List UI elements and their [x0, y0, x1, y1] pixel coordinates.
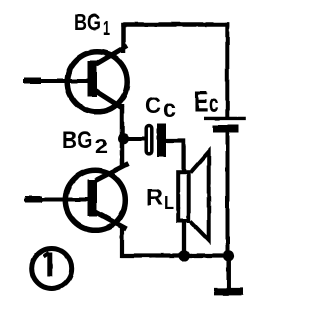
capacitor Cc left plate (hollow)	[146, 126, 152, 154]
transistor BG2 base bar	[88, 180, 98, 217]
svg-text:c: c	[209, 90, 219, 118]
wire ground stem	[226, 256, 231, 289]
wire BG2 emitter vertical to bottom	[122, 227, 229, 256]
wire mid vertical (BG1 emitter to BG2 collector)	[120, 104, 125, 167]
transistor BG2 emitter line	[96, 212, 127, 229]
transistor BG1 collector line	[96, 46, 128, 65]
svg-text:BG: BG	[74, 9, 101, 35]
node junction dot speaker/bottom wire	[178, 250, 189, 261]
transistor BG2 circle	[65, 170, 125, 230]
speaker bottom lead	[182, 221, 186, 256]
figure number circled 1	[32, 249, 72, 289]
battery Ec short thick plate	[213, 125, 238, 133]
transistor BG2 collector line	[96, 164, 129, 181]
wire capacitor to speaker	[165, 141, 184, 172]
wire top horizontal	[121, 22, 229, 27]
svg-text:2: 2	[95, 136, 108, 158]
wire right vertical lower	[226, 132, 230, 256]
ground bar	[214, 288, 243, 296]
battery Ec long plate	[204, 117, 246, 120]
wire to capacitor	[124, 137, 145, 141]
svg-text:c: c	[163, 95, 176, 123]
speaker RL driver rectangle	[178, 172, 189, 221]
node junction dot at capacitor tap	[118, 133, 129, 144]
transistor BG1 emitter line	[96, 91, 124, 109]
speaker RL cone	[191, 152, 209, 240]
svg-text:1: 1	[103, 18, 110, 40]
transistor BG2 base lead	[24, 198, 90, 202]
transistor BG1 base bar	[88, 61, 98, 97]
svg-text:BG: BG	[62, 127, 93, 154]
wire collector corner vertical	[121, 23, 126, 54]
svg-text:R: R	[146, 184, 163, 210]
transistor BG1 base lead	[23, 79, 90, 83]
svg-text:L: L	[164, 193, 174, 213]
wire right vertical upper	[225, 22, 229, 117]
node junction dot right/bottom wire	[223, 250, 234, 261]
svg-text:C: C	[145, 92, 161, 118]
transistor BG1 circle	[67, 52, 127, 112]
svg-text:E: E	[194, 87, 209, 119]
capacitor Cc right plate (solid)	[157, 124, 166, 158]
